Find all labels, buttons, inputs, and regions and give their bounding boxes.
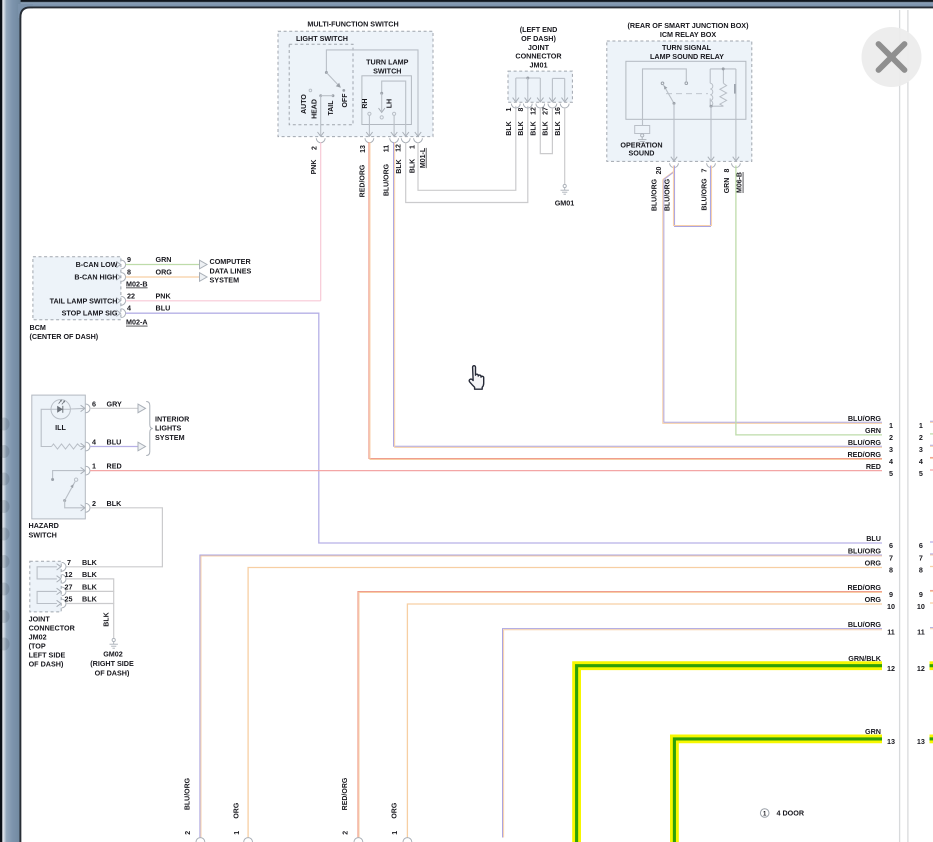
JM02 pin cups: [62, 562, 66, 571]
wire GRN row13 highlighted: [674, 739, 882, 842]
svg-text:DATA LINES: DATA LINES: [210, 266, 252, 275]
relay coil top bus: [710, 68, 736, 70]
wire ORG row10: [407, 604, 882, 838]
svg-text:SWITCH: SWITCH: [373, 67, 401, 76]
svg-text:TURN SIGNAL: TURN SIGNAL: [662, 43, 712, 52]
svg-text:SYSTEM: SYSTEM: [210, 276, 240, 285]
svg-text:2: 2: [92, 499, 96, 508]
svg-text:INTERIOR: INTERIOR: [155, 415, 190, 424]
svg-text:ORG: ORG: [391, 802, 398, 819]
relay coil: [710, 83, 713, 106]
relay coil bottom bus: [710, 105, 723, 107]
svg-text:4: 4: [127, 304, 131, 313]
svg-text:PNK: PNK: [311, 160, 318, 175]
svg-text:ORG: ORG: [156, 268, 173, 277]
note circled 1: [760, 809, 769, 818]
svg-text:ICM RELAY BOX: ICM RELAY BOX: [660, 30, 717, 39]
svg-text:BLU: BLU: [156, 304, 171, 313]
hazard switch box: [32, 395, 86, 519]
JM02 bus loop 27-25: [37, 591, 57, 603]
JM01 pin27 wire: [551, 78, 553, 101]
row 1 page2 wire stub: [930, 420, 933, 422]
svg-text:ORG: ORG: [234, 802, 241, 819]
svg-text:12: 12: [65, 570, 73, 579]
row 3 page2 wire stub: [930, 444, 933, 446]
relay bottom junction: [710, 105, 713, 108]
ground GM01: [563, 184, 566, 187]
wire BLU/ORG vertical to row3: [394, 142, 882, 446]
contact TAIL: [332, 94, 335, 97]
operation sound box: [635, 126, 650, 134]
wire BLU/ORG pin20 to row1: [664, 180, 882, 423]
wire ORG b-can high: [126, 276, 200, 278]
wire pin1 internal: [53, 471, 85, 478]
svg-text:10: 10: [887, 602, 895, 611]
svg-text:4: 4: [919, 457, 923, 466]
svg-text:13: 13: [360, 145, 367, 153]
svg-text:OF DASH): OF DASH): [29, 660, 64, 669]
svg-text:9: 9: [889, 590, 893, 599]
turn lamp switch box: [362, 76, 412, 125]
svg-text:TURN LAMP: TURN LAMP: [366, 57, 409, 66]
svg-text:5: 5: [919, 469, 923, 478]
wire LH output: [393, 115, 395, 135]
svg-text:RED/ORG: RED/ORG: [360, 164, 367, 197]
svg-text:20: 20: [656, 167, 663, 175]
svg-text:2: 2: [919, 433, 923, 442]
wire BLU/ORG row11: [503, 629, 883, 838]
svg-text:4 DOOR: 4 DOOR: [777, 809, 805, 818]
svg-text:ORG: ORG: [865, 595, 882, 604]
relay switch common wire: [643, 69, 687, 126]
wire RED to row5: [90, 470, 882, 472]
svg-text:10: 10: [917, 602, 925, 611]
ground GM02: [112, 638, 115, 641]
svg-text:RED/ORG: RED/ORG: [847, 450, 881, 459]
wire BLU stop lamp sig to row6: [126, 313, 882, 543]
svg-text:6: 6: [92, 399, 96, 408]
arrow computer data lines GRN: [200, 260, 208, 269]
JM01 bus junction pin8: [526, 77, 529, 80]
wire pin2 internal: [65, 501, 85, 508]
JM02 pin arrows: [57, 564, 61, 570]
MFS pin cups: [316, 138, 325, 142]
svg-text:2: 2: [343, 831, 350, 835]
row 11 page2 wire stub: [930, 627, 933, 629]
JM01 bus 27-16: [552, 77, 564, 79]
light switch arm: [326, 73, 339, 86]
ILL lamp internals: [51, 408, 70, 410]
svg-text:JOINT: JOINT: [528, 43, 550, 52]
svg-text:6: 6: [889, 541, 893, 550]
hazard pin cups: [86, 404, 90, 413]
svg-text:SYSTEM: SYSTEM: [155, 433, 185, 442]
arrow computer data lines ORG: [200, 273, 208, 282]
relay arm: [663, 84, 674, 103]
svg-text:TAIL LAMP SWITCH: TAIL LAMP SWITCH: [50, 296, 118, 305]
svg-text:SOUND: SOUND: [629, 149, 655, 158]
light switch box: [289, 44, 353, 125]
svg-text:27: 27: [65, 583, 73, 592]
wire BLK U pin12-pin27: [66, 579, 114, 592]
svg-text:JOINT: JOINT: [29, 614, 51, 623]
contact AUTO: [309, 89, 312, 92]
row 4 page2 wire stub: [930, 456, 933, 458]
svg-text:8: 8: [889, 566, 893, 575]
svg-text:GRN: GRN: [156, 255, 172, 264]
svg-text:1: 1: [234, 831, 241, 835]
svg-text:RH: RH: [362, 99, 369, 109]
wire BLK pin16 to ground: [564, 107, 566, 184]
svg-text:(REAR OF SMART JUNCTION BOX): (REAR OF SMART JUNCTION BOX): [628, 21, 750, 30]
relay resistor: [720, 83, 727, 106]
contact HEAD: [319, 94, 322, 97]
svg-text:GM01: GM01: [555, 199, 575, 208]
svg-text:BCM: BCM: [30, 323, 46, 332]
interior lights brace: [146, 402, 153, 456]
wire RH output: [368, 115, 370, 135]
bottom cup RED/ORG: [354, 838, 363, 842]
svg-text:BLU/ORG: BLU/ORG: [848, 414, 882, 423]
svg-text:BLK: BLK: [82, 570, 98, 579]
wire PNK tail lamp switch: [126, 300, 321, 302]
svg-text:CONNECTOR: CONNECTOR: [29, 623, 76, 632]
arrow interior lights BLU: [138, 442, 146, 451]
relay top junction: [722, 67, 725, 70]
svg-text:5: 5: [889, 469, 893, 478]
window left chrome bar: [0, 0, 21, 842]
BCM box: [33, 257, 121, 320]
svg-text:(RIGHT SIDE: (RIGHT SIDE: [90, 659, 134, 668]
wire BLU/ORG row7: [200, 555, 882, 838]
svg-text:HEAD: HEAD: [312, 99, 319, 119]
svg-text:BLU/ORG: BLU/ORG: [651, 178, 658, 211]
svg-text:LH: LH: [387, 99, 394, 108]
relay right vertical dark segment: [734, 84, 736, 94]
svg-text:AUTO: AUTO: [301, 94, 308, 114]
wire light switch output: [320, 96, 322, 136]
svg-text:BLK: BLK: [82, 583, 98, 592]
operation sound ground: [641, 134, 644, 137]
svg-text:11: 11: [384, 145, 391, 153]
row 13 page2 wire stub: [930, 735, 933, 744]
svg-text:M02-B: M02-B: [126, 280, 148, 289]
svg-text:8: 8: [518, 107, 525, 111]
bottom cup ORG: [244, 838, 253, 842]
svg-text:25: 25: [65, 595, 73, 604]
wire BLK pin25 to ground: [66, 604, 114, 639]
svg-text:BLU: BLU: [866, 534, 881, 543]
svg-text:1: 1: [392, 831, 399, 835]
hazard pin arrows right: [81, 443, 85, 449]
row 2 page2 wire stub: [930, 433, 933, 435]
svg-text:11: 11: [887, 627, 895, 636]
svg-text:12: 12: [887, 664, 895, 673]
hazard pin6 arrow: [81, 405, 85, 411]
row 10 page2 wire stub: [930, 602, 933, 604]
svg-text:TAIL: TAIL: [328, 100, 335, 116]
svg-text:8: 8: [919, 566, 923, 575]
hazard resistor: [83, 446, 85, 448]
row 8 page2 wire stub: [930, 566, 933, 568]
svg-text:13: 13: [917, 737, 925, 746]
svg-text:6: 6: [919, 541, 923, 550]
page separator line right: [907, 10, 909, 842]
svg-text:LIGHT SWITCH: LIGHT SWITCH: [296, 34, 348, 43]
svg-text:4: 4: [92, 438, 96, 447]
close button: [862, 27, 922, 87]
row 5 page2 wire stub: [930, 469, 933, 471]
svg-text:7: 7: [919, 554, 923, 563]
wire ILL right to pin6: [70, 407, 84, 410]
svg-text:BLU/ORG: BLU/ORG: [701, 178, 708, 211]
svg-text:LEFT SIDE: LEFT SIDE: [29, 651, 66, 660]
svg-text:9: 9: [919, 590, 923, 599]
svg-text:BLU/ORG: BLU/ORG: [184, 777, 191, 810]
light switch pivot: [325, 71, 328, 74]
svg-text:BLU/ORG: BLU/ORG: [848, 620, 882, 629]
svg-text:BLK: BLK: [555, 121, 562, 135]
svg-text:BLU/ORG: BLU/ORG: [848, 547, 882, 556]
svg-text:BLK: BLK: [409, 159, 416, 173]
svg-text:BLK: BLK: [531, 121, 538, 135]
svg-text:PNK: PNK: [156, 291, 172, 300]
svg-text:M02-A: M02-A: [126, 318, 148, 327]
ICM pin cups: [670, 163, 679, 167]
svg-text:MULTI-FUNCTION SWITCH: MULTI-FUNCTION SWITCH: [307, 20, 398, 29]
JM01 pin arrows: [513, 98, 519, 102]
svg-text:BLK: BLK: [103, 612, 110, 626]
svg-text:BLK: BLK: [518, 121, 525, 135]
svg-text:1: 1: [409, 145, 416, 149]
contact OFF: [342, 89, 345, 92]
wire PNK vertical: [320, 142, 322, 300]
svg-text:BLU: BLU: [107, 438, 122, 447]
svg-text:2: 2: [311, 146, 318, 150]
row 12 page2 wire stub: [930, 661, 933, 670]
hazard arm tip: [74, 478, 77, 481]
svg-text:BLU/ORG: BLU/ORG: [665, 178, 672, 211]
svg-text:BLU/ORG: BLU/ORG: [848, 438, 882, 447]
arrow interior lights GRY: [138, 404, 146, 413]
JM02 bus loop 7-12: [37, 567, 57, 579]
svg-text:8: 8: [127, 268, 131, 277]
svg-text:12: 12: [917, 664, 925, 673]
row 9 page2 wire stub: [930, 589, 933, 591]
svg-text:BLU/ORG: BLU/ORG: [383, 163, 390, 196]
svg-text:(CENTER OF DASH): (CENTER OF DASH): [30, 332, 99, 341]
relay arm end dot: [673, 102, 676, 105]
svg-text:HAZARD: HAZARD: [29, 521, 59, 530]
svg-text:1: 1: [919, 421, 923, 430]
svg-text:2: 2: [185, 831, 192, 835]
svg-text:GRN: GRN: [865, 426, 881, 435]
turn lamp switch frame wire: [382, 81, 406, 136]
wire GRN pin8 to row2: [736, 166, 882, 435]
relay inner box: [626, 61, 746, 119]
svg-text:3: 3: [919, 445, 923, 454]
relay actuation dashed link: [666, 93, 708, 95]
wire BLK U pin12-pin27: [540, 107, 552, 154]
svg-text:LAMP SOUND RELAY: LAMP SOUND RELAY: [650, 52, 724, 61]
svg-text:GM02: GM02: [103, 650, 123, 659]
wire RED/ORG row9: [358, 591, 882, 837]
window top chrome bar: [0, 0, 933, 7]
svg-text:1: 1: [506, 107, 513, 111]
hazard arm: [65, 482, 75, 501]
svg-text:M06-B: M06-B: [737, 172, 744, 193]
wire BLU/ORG pin20 diagonal: [672, 166, 674, 172]
svg-text:22: 22: [127, 291, 135, 300]
wire relay to pin8: [735, 69, 737, 161]
svg-text:B-CAN LOW: B-CAN LOW: [76, 260, 118, 269]
JM01 bus 1-8-12: [516, 77, 541, 79]
svg-text:OF DASH): OF DASH): [521, 34, 556, 43]
light switch common wire: [326, 50, 418, 136]
wire relay to pin7: [710, 106, 712, 160]
svg-text:7: 7: [701, 168, 708, 172]
wire GRN b-can low: [126, 264, 200, 266]
svg-text:BLK: BLK: [396, 159, 403, 173]
svg-text:7: 7: [67, 558, 71, 567]
svg-text:13: 13: [887, 737, 895, 746]
svg-text:GRN: GRN: [865, 727, 881, 736]
hazard fixed contact: [51, 478, 54, 481]
wire GRN/BLK row12 highlighted: [577, 666, 882, 842]
svg-text:OFF: OFF: [342, 93, 349, 108]
wire BLK from pin12 to JM01 pin8: [406, 106, 528, 203]
svg-text:27: 27: [543, 107, 550, 115]
svg-text:CONNECTOR: CONNECTOR: [515, 52, 562, 61]
left bar texture blobs: [0, 418, 10, 431]
svg-text:RED: RED: [107, 462, 122, 471]
svg-text:RED/ORG: RED/ORG: [847, 583, 881, 592]
bottom cup ORG 2: [403, 838, 412, 842]
multi-function switch outer box: [278, 31, 433, 136]
svg-text:JM02: JM02: [29, 632, 47, 641]
svg-text:GRN/BLK: GRN/BLK: [848, 654, 882, 663]
chrome corner patch: [18, 4, 33, 18]
bottom cup BLU/ORG: [196, 838, 205, 842]
wire BLU/ORG U pin20-pin7: [675, 166, 711, 227]
row 7 page2 wire stub: [930, 553, 933, 555]
wire BLK from pin1 to JM01 pin1: [418, 106, 516, 190]
svg-text:GRN: GRN: [724, 178, 731, 194]
svg-text:(TOP: (TOP: [29, 641, 46, 650]
svg-text:RED: RED: [866, 462, 881, 471]
page separator line left: [899, 10, 901, 842]
contact LH: [393, 112, 396, 115]
MFS pin arrows: [318, 132, 324, 136]
svg-text:RED/ORG: RED/ORG: [342, 777, 349, 810]
svg-text:STOP LAMP SIG: STOP LAMP SIG: [62, 309, 118, 318]
wire BLK hazard to JM02: [66, 508, 162, 567]
svg-text:7: 7: [889, 554, 893, 563]
svg-text:JM01: JM01: [530, 60, 548, 69]
svg-text:OF DASH): OF DASH): [95, 669, 130, 678]
svg-text:ILL: ILL: [55, 423, 66, 432]
JM02 box: [30, 561, 61, 612]
svg-text:BLK: BLK: [82, 558, 98, 567]
svg-text:BLK: BLK: [107, 499, 123, 508]
JM01 pin cups: [511, 104, 520, 108]
svg-text:BLK: BLK: [506, 121, 513, 135]
svg-text:COMPUTER: COMPUTER: [210, 257, 252, 266]
ICM relay box dashed box: [607, 41, 752, 161]
wire GRY to interior lights: [90, 407, 138, 409]
svg-text:ORG: ORG: [865, 559, 882, 568]
svg-text:1: 1: [92, 462, 96, 471]
svg-text:16: 16: [555, 107, 562, 115]
hazard arm bottom dot: [63, 499, 66, 502]
svg-text:4: 4: [889, 457, 893, 466]
wire ORG row8: [248, 568, 882, 838]
JM01 box: [508, 71, 572, 102]
relay fixed contact: [685, 82, 688, 85]
svg-text:2: 2: [889, 433, 893, 442]
svg-text:12: 12: [396, 144, 403, 152]
svg-text:12: 12: [531, 107, 538, 115]
JM01 pin8 wire: [527, 78, 529, 102]
turn lamp pole tip: [380, 116, 383, 119]
row 6 page2 wire stub: [930, 541, 933, 543]
wire ILL to resistor: [41, 409, 51, 446]
JM01 pin12 wire: [539, 78, 541, 102]
svg-text:BLK: BLK: [543, 121, 550, 135]
BCM pin cups: [121, 260, 125, 269]
turn lamp pole arm: [381, 93, 383, 111]
svg-text:LIGHTS: LIGHTS: [155, 424, 182, 433]
turn lamp pole dot: [380, 92, 383, 95]
svg-text:(LEFT END: (LEFT END: [520, 25, 558, 34]
svg-text:8: 8: [724, 168, 731, 172]
svg-text:B-CAN HIGH: B-CAN HIGH: [74, 273, 117, 282]
ILL lamp circle: [51, 400, 70, 419]
wire BLU to interior lights: [90, 446, 138, 448]
wire HEAD-TAIL bridge: [321, 95, 333, 97]
svg-text:9: 9: [127, 255, 131, 264]
svg-text:1: 1: [889, 421, 893, 430]
JM01 pin16 wire: [564, 78, 566, 101]
svg-text:M01-L: M01-L: [420, 147, 427, 168]
mouse hand cursor: [469, 366, 484, 390]
ICM pin arrows: [671, 157, 677, 161]
svg-text:SWITCH: SWITCH: [29, 531, 57, 540]
JM01 pin1 wire: [515, 78, 517, 102]
svg-text:11: 11: [917, 627, 925, 636]
svg-text:3: 3: [889, 445, 893, 454]
wire relay arm to pin20: [673, 103, 675, 160]
relay pivot: [661, 82, 664, 85]
contact RH: [368, 112, 371, 115]
svg-text:GRY: GRY: [107, 399, 123, 408]
svg-text:BLK: BLK: [82, 595, 98, 604]
wire RED/ORG vertical to row4: [369, 142, 882, 458]
BCM pin arrows: [116, 261, 120, 267]
